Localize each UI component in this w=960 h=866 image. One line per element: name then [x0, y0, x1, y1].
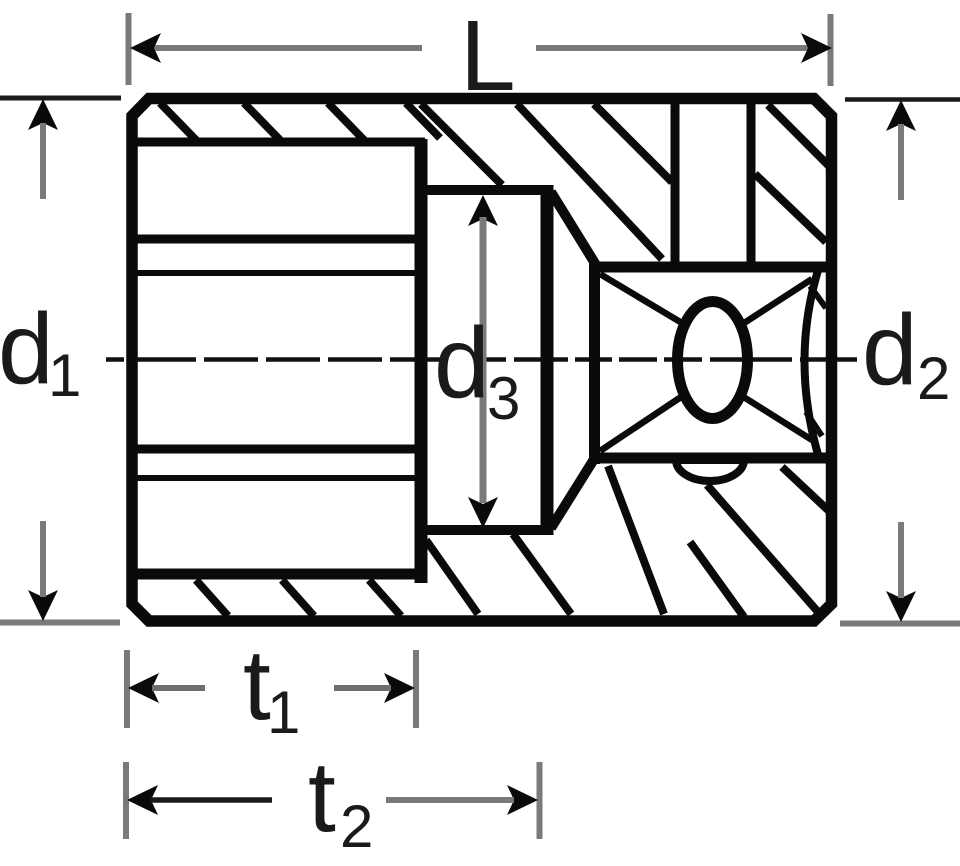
- hatch slivers right of dome arc: [806, 286, 826, 436]
- svg-text:1: 1: [48, 342, 81, 409]
- d1 bottom extension line: [0, 620, 120, 626]
- hatch upper right box: [755, 105, 830, 242]
- svg-text:L: L: [460, 0, 516, 112]
- label d3: [442, 351, 477, 369]
- hex cavity bottom wall line: [130, 569, 425, 580]
- dome arc at right end of square hole: [805, 267, 820, 458]
- centerline (dash-dot axis): [106, 357, 857, 362]
- inner wall between hex cavity and pocket: [415, 139, 428, 583]
- hex facet line 4: [137, 475, 417, 481]
- L dimension line right segment: [536, 45, 808, 51]
- L right arrowhead: [801, 33, 832, 63]
- hex cavity top wall line: [130, 138, 425, 147]
- L left arrowhead: [130, 33, 161, 63]
- square corner diagonal bottom-left: [600, 397, 681, 451]
- square corner diagonal top-right: [741, 279, 812, 325]
- hatch top-left strip: [160, 103, 440, 140]
- t1 left arrow: [128, 673, 159, 703]
- hatch bottom-left strip: [196, 580, 401, 616]
- square corner diagonal top-left: [600, 274, 682, 323]
- square drive top edge: [589, 262, 831, 273]
- vertical divider 1 above square: [671, 104, 680, 263]
- hex facet line 2: [137, 270, 417, 276]
- pin notch semicircle below square: [676, 460, 744, 481]
- t2 left arrow: [127, 785, 158, 815]
- t1 left tick: [124, 650, 130, 728]
- svg-text:d: d: [862, 294, 918, 406]
- d1 top arrow: [28, 99, 58, 130]
- vertical divider 2 above square: [747, 104, 756, 263]
- hatch bottom region: [426, 466, 830, 617]
- L dimension line left segment: [154, 45, 422, 51]
- d2 bottom arrow: [886, 591, 916, 622]
- hatch upper middle region: [421, 104, 672, 259]
- square drive left edge: [589, 262, 600, 464]
- t1 right tick: [413, 650, 419, 728]
- svg-text:3: 3: [487, 365, 520, 432]
- socket body outline (chamfered): [132, 99, 832, 622]
- d1 bottom arrow: [28, 590, 58, 621]
- d1 top extension line: [0, 96, 121, 101]
- funnel top diagonal: [551, 192, 596, 265]
- d2 top extension line: [845, 97, 960, 102]
- L dimension left tick: [126, 13, 132, 85]
- svg-text:d: d: [0, 293, 54, 405]
- square corner diagonal bottom-right: [742, 396, 812, 440]
- d3 pocket top line: [424, 185, 552, 195]
- svg-text:2: 2: [340, 793, 373, 860]
- d3 up arrow: [468, 195, 498, 226]
- d3 pocket right edge: [541, 185, 554, 535]
- svg-text:2: 2: [917, 345, 950, 412]
- d2 top arrow: [886, 100, 916, 131]
- square drive bottom edge: [589, 453, 831, 464]
- svg-text:1: 1: [267, 679, 300, 746]
- d3 down arrow: [468, 497, 498, 528]
- d2 bottom extension line: [840, 621, 960, 627]
- d3 arrow shaft: [480, 217, 487, 503]
- hex facet line 1: [137, 235, 417, 244]
- ball detent ellipse: [678, 302, 748, 419]
- hex facet line 3: [137, 445, 417, 454]
- L dimension right tick: [828, 14, 834, 86]
- t2 left tick: [123, 762, 129, 839]
- t2 right tick: [537, 762, 543, 839]
- t2 right arrow: [507, 785, 538, 815]
- svg-text:d: d: [434, 307, 490, 419]
- d3 pocket bottom line: [424, 525, 552, 535]
- t1 right arrow: [384, 673, 415, 703]
- svg-text:t: t: [308, 741, 336, 853]
- funnel bottom diagonal: [551, 456, 596, 528]
